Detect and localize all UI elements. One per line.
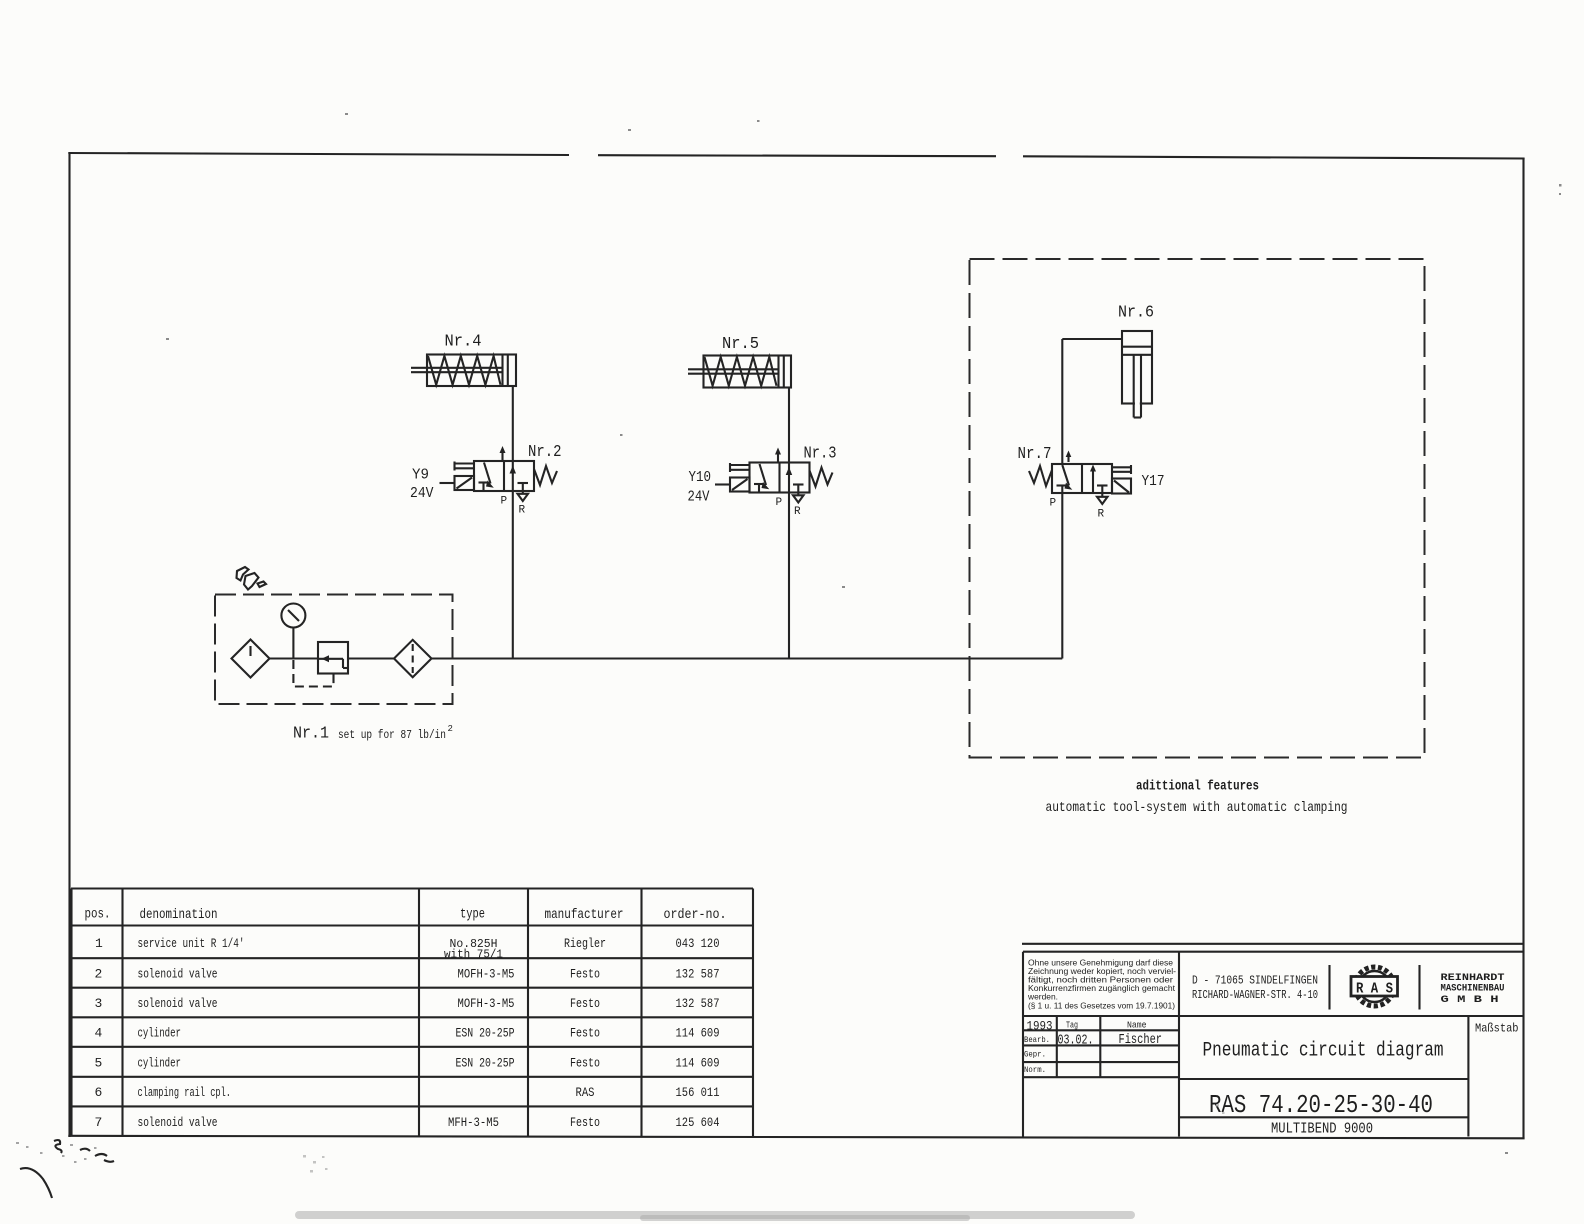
svg-text:125 604: 125 604 bbox=[676, 1115, 720, 1130]
svg-text:Nr.3: Nr.3 bbox=[804, 445, 837, 464]
svg-text:Y10: Y10 bbox=[689, 469, 712, 486]
svg-text:MASCHINENBAU: MASCHINENBAU bbox=[1441, 983, 1505, 995]
svg-text:D - 71065 SINDELFINGEN: D - 71065 SINDELFINGEN bbox=[1192, 974, 1318, 988]
wire filter to regulator bbox=[270, 657, 319, 659]
svg-text:cylinder: cylinder bbox=[138, 1026, 182, 1041]
svg-text:Nr.1: Nr.1 bbox=[293, 725, 329, 744]
title block bbox=[1022, 944, 1524, 1137]
svg-text:R: R bbox=[1098, 509, 1105, 521]
svg-text:156 011: 156 011 bbox=[676, 1085, 720, 1100]
svg-text:4: 4 bbox=[95, 1026, 103, 1041]
svg-text:03.02.: 03.02. bbox=[1058, 1034, 1094, 1049]
table row 5 cylinder bbox=[95, 1055, 720, 1070]
svg-text:Fischer: Fischer bbox=[1119, 1033, 1163, 1048]
svg-text:Festo: Festo bbox=[570, 996, 600, 1011]
svg-text:manufacturer: manufacturer bbox=[545, 907, 624, 923]
svg-text:set up for 87 lb/in: set up for 87 lb/in bbox=[338, 728, 446, 742]
RAS logo bbox=[1351, 967, 1398, 1006]
svg-text:Festo: Festo bbox=[570, 1026, 600, 1041]
table row 4 cylinder bbox=[95, 1026, 720, 1041]
svg-text:RICHARD-WAGNER-STR. 4-10: RICHARD-WAGNER-STR. 4-10 bbox=[1192, 988, 1318, 1002]
svg-text:3: 3 bbox=[95, 996, 103, 1011]
company name bbox=[1441, 972, 1505, 1006]
svg-text:Riegler: Riegler bbox=[564, 936, 606, 951]
svg-text:MOFH-3-M5: MOFH-3-M5 bbox=[458, 967, 515, 982]
svg-text:Tag: Tag bbox=[1066, 1021, 1078, 1031]
parts table bbox=[71, 889, 753, 1137]
svg-text:R: R bbox=[519, 505, 526, 517]
valve Nr.2 (3/2 solenoid valve) bbox=[440, 446, 558, 501]
lubricator (diamond) bbox=[394, 640, 432, 678]
svg-text:6: 6 bbox=[95, 1085, 103, 1100]
supply line bbox=[432, 657, 1063, 659]
cylinder Nr.5 bbox=[688, 356, 791, 388]
separator bars bbox=[1330, 965, 1420, 1010]
revision table labels bbox=[1024, 1019, 1519, 1076]
cylinder Nr.4 bbox=[411, 355, 516, 387]
svg-text:RAS 74.20-25-30-40: RAS 74.20-25-30-40 bbox=[1209, 1090, 1433, 1120]
table row 2 solenoid valve bbox=[95, 967, 720, 982]
svg-text:with 75/1: with 75/1 bbox=[444, 949, 503, 962]
svg-text:RAS: RAS bbox=[576, 1085, 595, 1100]
svg-text:1993: 1993 bbox=[1027, 1019, 1053, 1034]
svg-text:service unit R 1/4': service unit R 1/4' bbox=[138, 936, 245, 951]
svg-text:MULTIBEND 9000: MULTIBEND 9000 bbox=[1271, 1122, 1373, 1138]
svg-text:G M B H: G M B H bbox=[1441, 994, 1499, 1006]
svg-text:type: type bbox=[460, 907, 485, 923]
wire supply to valve Nr.7 and up to cylinder Nr.6 bbox=[1062, 339, 1122, 659]
svg-text:Maßstab: Maßstab bbox=[1475, 1022, 1519, 1036]
svg-text:MFH-3-M5: MFH-3-M5 bbox=[448, 1115, 499, 1130]
company address bbox=[1192, 974, 1318, 1003]
svg-text:solenoid valve: solenoid valve bbox=[138, 996, 218, 1011]
valve Nr.7 (3/2 solenoid valve) bbox=[1029, 451, 1131, 505]
wire regulator to lubricator bbox=[348, 657, 394, 659]
svg-text:solenoid valve: solenoid valve bbox=[138, 1115, 218, 1130]
svg-text:order-no.: order-no. bbox=[664, 907, 727, 923]
svg-text:ESN 20-25P: ESN 20-25P bbox=[456, 1026, 515, 1041]
svg-text:Nr.5: Nr.5 bbox=[722, 335, 759, 354]
svg-text:Festo: Festo bbox=[570, 967, 600, 982]
table header labels bbox=[85, 907, 727, 924]
svg-text:Nr.7: Nr.7 bbox=[1018, 445, 1052, 464]
svg-text:5: 5 bbox=[95, 1055, 103, 1070]
additional-features dashed enclosure bbox=[970, 259, 1425, 758]
svg-text:Nr.6: Nr.6 bbox=[1118, 304, 1154, 323]
svg-text:1: 1 bbox=[95, 936, 103, 951]
svg-text:clamping rail cpl.: clamping rail cpl. bbox=[138, 1085, 232, 1100]
valve Nr.3 (3/2 solenoid valve) bbox=[715, 448, 833, 503]
wire cylinder Nr.4 to valve Nr.2 to supply line bbox=[512, 386, 514, 659]
svg-text:R A S: R A S bbox=[1356, 981, 1393, 998]
svg-text:7: 7 bbox=[95, 1115, 103, 1130]
svg-text:Name: Name bbox=[1127, 1021, 1147, 1031]
border frame bbox=[68, 152, 1524, 1138]
table row 7 solenoid valve bbox=[95, 1115, 720, 1130]
filter F (diamond) bbox=[232, 640, 270, 678]
svg-text:P: P bbox=[776, 497, 783, 509]
wire cylinder Nr.5 to valve Nr.3 to supply line bbox=[788, 388, 790, 659]
svg-text:cylinder: cylinder bbox=[138, 1055, 182, 1070]
pressure gauge bbox=[281, 604, 305, 659]
pencil smudges above service unit bbox=[237, 567, 267, 590]
svg-text:Y17: Y17 bbox=[1142, 473, 1165, 490]
paper specks bbox=[166, 113, 1562, 1154]
svg-text:werden.: werden. bbox=[1027, 993, 1058, 1002]
svg-text:114 609: 114 609 bbox=[676, 1055, 720, 1070]
svg-text:132 587: 132 587 bbox=[676, 996, 720, 1011]
svg-text:Gepr.: Gepr. bbox=[1024, 1050, 1046, 1060]
regulator pilot dashed loop bbox=[293, 660, 333, 687]
svg-text:solenoid valve: solenoid valve bbox=[138, 967, 218, 982]
svg-text:114 609: 114 609 bbox=[676, 1026, 720, 1041]
pressure regulator bbox=[318, 642, 348, 674]
svg-text:Festo: Festo bbox=[570, 1115, 600, 1130]
svg-text:pos.: pos. bbox=[85, 907, 111, 923]
svg-text:MOFH-3-M5: MOFH-3-M5 bbox=[458, 996, 515, 1011]
service unit Nr.1 dashed enclosure bbox=[215, 595, 453, 705]
svg-text:P: P bbox=[1050, 498, 1057, 510]
svg-text:2: 2 bbox=[95, 967, 103, 982]
svg-text:Y9: Y9 bbox=[412, 467, 429, 484]
svg-text:P: P bbox=[501, 496, 508, 508]
scanner streak bottom bbox=[295, 1211, 1135, 1219]
pencil scribbles bottom left bbox=[20, 1140, 114, 1198]
table row 1 service unit bbox=[95, 936, 720, 962]
svg-text:043 120: 043 120 bbox=[676, 936, 720, 951]
legal note bbox=[1027, 959, 1176, 1011]
svg-text:adittional features: adittional features bbox=[1136, 779, 1259, 795]
svg-text:24V: 24V bbox=[688, 489, 710, 506]
svg-text:denomination: denomination bbox=[140, 907, 218, 923]
svg-text:automatic tool-system with aut: automatic tool-system with automatic cla… bbox=[1046, 800, 1348, 816]
table row 3 solenoid valve bbox=[95, 996, 720, 1011]
svg-text:132 587: 132 587 bbox=[676, 967, 720, 982]
svg-text:ESN 20-25P: ESN 20-25P bbox=[456, 1055, 515, 1070]
svg-text:Festo: Festo bbox=[570, 1055, 600, 1070]
svg-text:24V: 24V bbox=[410, 485, 434, 502]
svg-text:Nr.4: Nr.4 bbox=[445, 333, 482, 352]
svg-text:(§ 1 u. 11 des Gesetzes vom 19: (§ 1 u. 11 des Gesetzes vom 19.7.1901) bbox=[1028, 1002, 1175, 1011]
svg-text:Pneumatic circuit diagram: Pneumatic circuit diagram bbox=[1203, 1040, 1444, 1063]
table row 6 clamping rail bbox=[95, 1085, 720, 1100]
svg-text:Norm.: Norm. bbox=[1024, 1065, 1046, 1075]
svg-text:R: R bbox=[794, 506, 801, 518]
svg-text:2: 2 bbox=[448, 724, 453, 734]
svg-text:Nr.2: Nr.2 bbox=[528, 443, 562, 462]
cylinder Nr.6 bbox=[1122, 331, 1152, 418]
svg-text:Bearb.: Bearb. bbox=[1024, 1035, 1050, 1045]
